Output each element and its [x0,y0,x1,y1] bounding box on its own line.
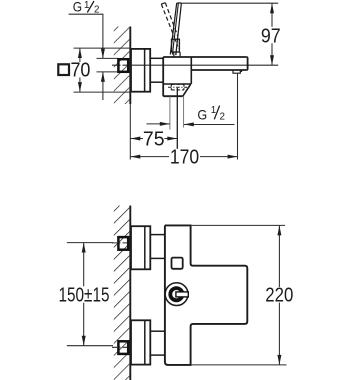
svg-text:G: G [73,0,82,15]
svg-text:75: 75 [143,128,165,150]
svg-text:170: 170 [170,146,199,168]
svg-text:97: 97 [261,25,281,47]
svg-text:1: 1 [211,105,216,116]
svg-text:70: 70 [70,59,90,81]
svg-text:150±15: 150±15 [59,284,110,306]
svg-text:G: G [197,107,207,123]
svg-text:2: 2 [94,4,99,15]
svg-text:2: 2 [220,112,225,123]
svg-text:220: 220 [265,284,293,306]
